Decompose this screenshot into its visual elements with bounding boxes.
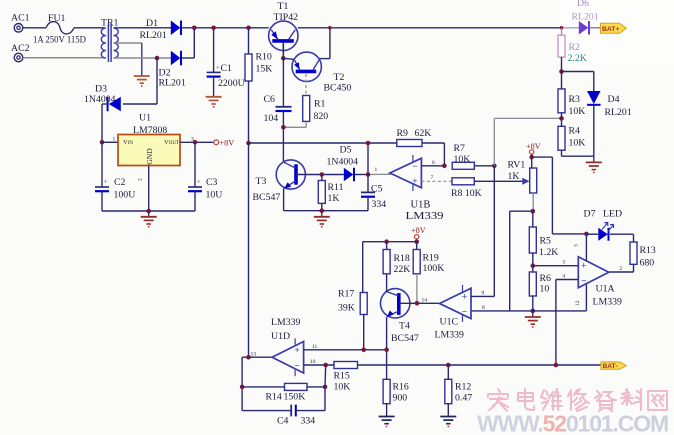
svg-text:R16: R16 bbox=[393, 382, 409, 393]
op-amp U1D LM339 bbox=[271, 317, 304, 376]
diode D1 RL201 bbox=[140, 18, 182, 41]
svg-text:1: 1 bbox=[113, 137, 116, 143]
capacitor C1 2200U bbox=[207, 63, 245, 96]
svg-text:R8 10K: R8 10K bbox=[451, 188, 482, 199]
transistor T4 BC547 bbox=[381, 289, 419, 344]
node RV1 bottom tap bbox=[531, 209, 536, 214]
node R6 bottom bbox=[531, 309, 536, 314]
wire U1D noninverting row bbox=[304, 349, 387, 351]
svg-text:1N4004: 1N4004 bbox=[84, 94, 116, 105]
svg-text:R10: R10 bbox=[256, 52, 272, 63]
wire U1B inverting input bbox=[421, 165, 444, 167]
terminal AC1 bbox=[11, 13, 30, 33]
node +8V rail tap bbox=[246, 141, 251, 146]
resistor R13 680 bbox=[610, 234, 656, 272]
svg-text:AC1: AC1 bbox=[11, 13, 30, 24]
svg-text:+: + bbox=[412, 176, 417, 186]
svg-text:T1: T1 bbox=[278, 1, 289, 12]
svg-text:22K: 22K bbox=[394, 264, 411, 275]
svg-text:LM339: LM339 bbox=[435, 330, 464, 341]
svg-text:2200U: 2200U bbox=[218, 78, 245, 89]
ground C1 bbox=[206, 96, 222, 98]
svg-text:T3: T3 bbox=[256, 176, 267, 187]
ground center tap bbox=[134, 75, 150, 77]
resistor R11 1K bbox=[318, 175, 343, 211]
node R3 R4 sense junction bbox=[559, 116, 564, 121]
svg-text:−: − bbox=[462, 307, 467, 317]
ground R4 D4 bbox=[593, 156, 595, 162]
wire rail right of T1 bbox=[298, 27, 579, 29]
svg-text:LM7808: LM7808 bbox=[133, 125, 167, 136]
svg-text:R18: R18 bbox=[394, 253, 410, 264]
ground R12 bbox=[440, 416, 456, 418]
svg-text:−: − bbox=[294, 361, 299, 371]
svg-text:R1: R1 bbox=[314, 99, 326, 110]
svg-text:3: 3 bbox=[574, 244, 580, 247]
resistor R12 0.47 bbox=[445, 365, 472, 416]
watermark chinese text bbox=[488, 389, 667, 411]
wire U1D output bbox=[242, 356, 272, 358]
wire U1C noninverting bbox=[471, 295, 494, 297]
svg-text:5: 5 bbox=[563, 260, 566, 266]
node T1 base / T2 bbox=[281, 56, 286, 61]
svg-text:C2: C2 bbox=[114, 177, 126, 188]
wire D6 to BAT+ bbox=[590, 27, 601, 29]
svg-text:1A 250V 115D: 1A 250V 115D bbox=[33, 35, 86, 46]
capacitor C4 334 bbox=[242, 387, 325, 427]
op-amp U1A LM339 bbox=[578, 257, 622, 308]
node R5 R6 junction bbox=[531, 263, 536, 268]
svg-text:C4: C4 bbox=[277, 416, 289, 427]
svg-text:2: 2 bbox=[138, 178, 144, 181]
svg-text:R15: R15 bbox=[334, 371, 350, 382]
wire T1 base to T2 bbox=[283, 58, 293, 59]
wire +8V to D7 bbox=[552, 233, 586, 235]
power port +8V at R18 bbox=[411, 226, 426, 239]
wire D2 anode junction down to D3 bbox=[156, 58, 158, 104]
svg-text:13: 13 bbox=[251, 352, 257, 358]
regulator U1 LM7808 bbox=[118, 113, 180, 166]
svg-text:R19: R19 bbox=[423, 253, 439, 264]
svg-text:R12: R12 bbox=[455, 382, 471, 393]
op-amp U1C LM339 bbox=[435, 285, 472, 341]
capacitor C2 100U bbox=[95, 142, 135, 211]
svg-text:9: 9 bbox=[482, 291, 485, 297]
svg-text:2: 2 bbox=[620, 266, 623, 272]
svg-text:D4: D4 bbox=[608, 94, 620, 105]
svg-text:1K: 1K bbox=[508, 171, 520, 182]
svg-text:U1C: U1C bbox=[440, 317, 459, 328]
svg-text:T4: T4 bbox=[399, 321, 410, 332]
svg-text:+: + bbox=[216, 65, 220, 72]
diode D2 RL201 bbox=[159, 51, 186, 89]
wire D2 cathode up to rail bbox=[182, 57, 195, 59]
svg-text:C5: C5 bbox=[371, 184, 383, 195]
wire secondary bottom to D2 bbox=[114, 57, 157, 59]
svg-text:D7: D7 bbox=[584, 209, 596, 220]
resistor R18 22K bbox=[383, 242, 410, 275]
svg-text:C1: C1 bbox=[221, 63, 233, 74]
resistor R14 150K bbox=[242, 383, 325, 402]
terminal AC2 bbox=[11, 43, 30, 62]
node C5 rail tap bbox=[366, 141, 371, 146]
svg-text:R14: R14 bbox=[266, 392, 282, 403]
svg-text:39K: 39K bbox=[338, 303, 355, 314]
svg-text:R6: R6 bbox=[540, 273, 552, 284]
svg-text:2.2K: 2.2K bbox=[568, 53, 587, 64]
svg-text:U1B: U1B bbox=[411, 200, 431, 211]
svg-text:−: − bbox=[412, 161, 417, 171]
wire T3 emitter down bbox=[283, 188, 285, 211]
svg-text:R3: R3 bbox=[569, 94, 581, 105]
svg-text:100U: 100U bbox=[114, 190, 136, 201]
transistor T3 BC547 bbox=[253, 160, 306, 203]
resistor R4 10K bbox=[558, 113, 585, 156]
svg-text:TIP42: TIP42 bbox=[274, 12, 299, 23]
node R11 bottom bbox=[320, 208, 325, 213]
svg-text:BC547: BC547 bbox=[391, 333, 419, 344]
node R12 top bbox=[446, 363, 451, 368]
node U1 input bbox=[100, 140, 105, 145]
node R7 sense junction bbox=[492, 164, 497, 169]
wire T4 emitter bbox=[386, 317, 388, 379]
svg-text:1N4004: 1N4004 bbox=[327, 157, 359, 168]
svg-text:334: 334 bbox=[301, 416, 316, 427]
wire fuse to transformer bbox=[74, 27, 105, 29]
net label BAT- bbox=[601, 362, 626, 370]
capacitor C5 334 bbox=[361, 175, 386, 211]
capacitor C3 10U bbox=[188, 142, 222, 211]
svg-text:RL201: RL201 bbox=[572, 12, 599, 23]
svg-text:10U: 10U bbox=[206, 190, 223, 201]
ground T3 block bbox=[321, 211, 323, 217]
wire T3 emitter rail bbox=[284, 210, 368, 212]
net label BAT+ bbox=[601, 23, 627, 33]
node T4 emitter sense bbox=[384, 348, 389, 353]
resistor R16 900 bbox=[383, 379, 409, 403]
wire to U1 Vin bbox=[102, 141, 118, 143]
node U1A sense tap bbox=[554, 363, 559, 368]
svg-text:U1: U1 bbox=[139, 113, 151, 124]
transistor T1 TIP42 bbox=[269, 1, 298, 51]
svg-text:11: 11 bbox=[312, 344, 318, 350]
svg-text:VIN: VIN bbox=[123, 139, 133, 146]
resistor R5 1.2K bbox=[529, 211, 558, 266]
wire T4 collector bbox=[386, 274, 388, 292]
svg-text:1K: 1K bbox=[328, 193, 340, 204]
node D7 anode bbox=[584, 232, 589, 237]
svg-text:U1A: U1A bbox=[596, 284, 615, 295]
potentiometer RV1 1K bbox=[508, 154, 537, 211]
ground R16 bbox=[386, 404, 388, 417]
svg-text:1: 1 bbox=[375, 167, 378, 173]
svg-text:D5: D5 bbox=[340, 145, 352, 156]
wire AC1 to fuse bbox=[23, 27, 46, 29]
svg-text:10K: 10K bbox=[569, 138, 586, 149]
svg-text:680: 680 bbox=[640, 258, 655, 269]
svg-text:+8V: +8V bbox=[526, 142, 541, 151]
resistor R3 10K bbox=[558, 72, 585, 118]
svg-text:10K: 10K bbox=[569, 106, 586, 117]
svg-text:104: 104 bbox=[264, 113, 279, 124]
svg-text:BAT+: BAT+ bbox=[602, 26, 619, 33]
node C6-R1 junction bbox=[281, 125, 286, 130]
svg-text:C3: C3 bbox=[206, 177, 218, 188]
node U1B top input bbox=[442, 164, 447, 169]
svg-text:D6: D6 bbox=[577, 0, 589, 9]
wire ground rail under C2 C3 bbox=[102, 210, 195, 212]
diode D5 1N4004 bbox=[327, 145, 359, 182]
node R19 bottom bbox=[415, 301, 420, 306]
node riser bbox=[328, 26, 332, 30]
wire T2 emitter riser to rail bbox=[319, 58, 330, 60]
svg-text:+8V: +8V bbox=[220, 139, 235, 148]
op-amp U1B LM339 bbox=[390, 155, 444, 222]
wire R1 bottom to C6 line bbox=[305, 121, 307, 127]
node R18 top bbox=[384, 239, 389, 244]
node D2-D1 junction bbox=[192, 26, 197, 31]
power port +8V at RV1 bbox=[526, 142, 541, 154]
wire U1 output bbox=[180, 141, 213, 143]
svg-text:6: 6 bbox=[432, 160, 435, 166]
svg-text:D3: D3 bbox=[95, 84, 107, 95]
white wash overlay top right bbox=[560, 0, 674, 64]
node R17 bottom bbox=[361, 348, 366, 353]
terminal +8V output bbox=[214, 139, 234, 148]
svg-text:R4: R4 bbox=[569, 126, 581, 137]
transistor T2 BC450 bbox=[292, 52, 351, 93]
wire BAT- rail bbox=[358, 364, 601, 366]
svg-text:LED: LED bbox=[603, 209, 622, 220]
wire R14 to U1D inverting bbox=[324, 365, 327, 387]
wire U1 GND pin bbox=[148, 166, 150, 212]
node R19 top bbox=[414, 239, 419, 244]
wire T4 base to U1C output bbox=[399, 302, 441, 304]
wire U1A inverting from BAT- bbox=[556, 279, 578, 281]
wire feedback left leg bbox=[241, 357, 243, 410]
svg-text:LM339: LM339 bbox=[271, 317, 300, 328]
node R14 left bbox=[240, 385, 245, 390]
resistor R8 10K bbox=[451, 178, 482, 199]
wire RV1 top to D7 branch bbox=[532, 156, 553, 158]
svg-text:BC547: BC547 bbox=[253, 192, 281, 203]
diode D3 1N4004 bbox=[84, 84, 121, 112]
wire R8 to RV1 wiper bbox=[474, 180, 526, 182]
svg-text:15K: 15K bbox=[256, 64, 273, 75]
svg-text:8: 8 bbox=[482, 305, 485, 311]
svg-text:U1D: U1D bbox=[271, 331, 290, 342]
svg-text:T2: T2 bbox=[334, 72, 345, 83]
svg-text:100K: 100K bbox=[423, 263, 445, 274]
wire to U1A noninverting bbox=[533, 265, 579, 267]
svg-text:VOUT: VOUT bbox=[164, 139, 179, 146]
node ground rail bbox=[146, 209, 151, 214]
svg-text:D1: D1 bbox=[146, 18, 158, 29]
wire T2 base to R1 (dashed) bbox=[305, 74, 307, 96]
svg-text:BAT-: BAT- bbox=[603, 363, 618, 370]
svg-text:14: 14 bbox=[422, 298, 428, 304]
svg-text:R17: R17 bbox=[338, 289, 354, 300]
wire long feedback vertical bbox=[248, 143, 250, 357]
wire D3 cathode to U1 input bbox=[102, 103, 108, 105]
wire R4 bottom to ground bbox=[562, 155, 594, 157]
svg-text:RL201: RL201 bbox=[140, 30, 167, 41]
svg-text:150K: 150K bbox=[284, 392, 306, 403]
node R11 top bbox=[320, 172, 325, 177]
ground R6 bbox=[532, 311, 534, 317]
svg-text:R2: R2 bbox=[569, 42, 581, 53]
node R10 top bbox=[246, 26, 251, 31]
svg-text:TR1: TR1 bbox=[101, 18, 119, 29]
svg-text:R13: R13 bbox=[640, 245, 656, 256]
node C3 branch bbox=[193, 140, 198, 145]
resistor R19 100K bbox=[413, 242, 444, 304]
svg-text:+: + bbox=[581, 260, 586, 270]
LED D7 bbox=[584, 209, 623, 241]
svg-text:RL201: RL201 bbox=[605, 107, 632, 118]
svg-text:10: 10 bbox=[540, 284, 550, 295]
svg-text:+: + bbox=[462, 291, 467, 301]
resistor R17 39K bbox=[338, 242, 367, 350]
svg-text:BC450: BC450 bbox=[324, 83, 352, 94]
svg-text:7: 7 bbox=[431, 175, 434, 181]
resistor R9 62K bbox=[397, 128, 432, 147]
wire +8V rail to R17 R18 bbox=[363, 241, 417, 243]
resistor R15 10K bbox=[334, 362, 358, 393]
svg-text:62K: 62K bbox=[415, 128, 432, 139]
wire T1 base down bbox=[282, 43, 284, 59]
wire R7 right bbox=[474, 165, 494, 167]
wire U1B noninverting input (dashed) bbox=[421, 180, 452, 182]
svg-text:10: 10 bbox=[310, 359, 316, 365]
wire R9 to U1B top input bbox=[422, 142, 444, 144]
node U1D output feedback bbox=[246, 355, 251, 360]
svg-text:4: 4 bbox=[563, 274, 566, 280]
svg-text:900: 900 bbox=[393, 393, 408, 404]
wire U1A gnd stub pin12 bbox=[585, 284, 587, 311]
wire secondary top to D1 bbox=[114, 27, 171, 29]
resistor R6 10 bbox=[529, 266, 551, 311]
svg-text:LM339: LM339 bbox=[593, 297, 622, 308]
svg-text:R5: R5 bbox=[540, 236, 552, 247]
svg-text:FU1: FU1 bbox=[48, 13, 66, 24]
wire D5 cathode to U1B output bbox=[355, 174, 368, 176]
svg-text:C6: C6 bbox=[264, 94, 276, 105]
wire rail to C1 bbox=[213, 28, 215, 73]
svg-text:+8V: +8V bbox=[411, 226, 426, 235]
wire battery sense from R3R4 bbox=[493, 118, 495, 165]
svg-text:820: 820 bbox=[314, 111, 329, 122]
svg-text:GND: GND bbox=[145, 148, 154, 165]
node R14 right bbox=[323, 385, 328, 390]
svg-text:10K: 10K bbox=[454, 154, 471, 165]
node R2 bottom junction bbox=[559, 69, 564, 74]
wire D1 cathode to rail bbox=[182, 27, 269, 29]
svg-text:−: − bbox=[581, 275, 586, 285]
svg-text:+: + bbox=[197, 179, 201, 186]
wire AC2 to transformer bbox=[23, 57, 104, 59]
svg-text:R7: R7 bbox=[454, 143, 466, 154]
transformer TR1 bbox=[101, 18, 119, 63]
fuse FU1 bbox=[33, 13, 86, 46]
wire sense down to U1C bbox=[493, 166, 495, 297]
wire U1D inverting row bbox=[304, 364, 334, 366]
resistor R1 820 bbox=[303, 96, 329, 123]
wire T3 base row bbox=[296, 174, 344, 176]
node RV1 top bbox=[529, 155, 534, 160]
svg-text:1.2K: 1.2K bbox=[539, 247, 558, 258]
svg-text:RV1: RV1 bbox=[508, 160, 526, 171]
ground main filter bbox=[148, 211, 150, 217]
wire U1A pin3 stub bbox=[585, 234, 587, 261]
node C1 junction bbox=[211, 26, 216, 31]
wire gnd row U1C to U1A bbox=[471, 310, 586, 312]
svg-text:+: + bbox=[294, 345, 299, 355]
svg-text:+: + bbox=[104, 179, 108, 186]
resistor R10 15K bbox=[245, 28, 272, 143]
node R15 left bbox=[323, 363, 328, 368]
svg-text:R11: R11 bbox=[328, 182, 344, 193]
node R2 top bbox=[560, 26, 564, 30]
svg-text:12: 12 bbox=[575, 300, 581, 306]
wire RV1 tap to U1C inverting bbox=[510, 210, 533, 212]
svg-text:334: 334 bbox=[372, 199, 387, 210]
wire C5 vertical to +8V rail bbox=[367, 143, 369, 175]
wire secondary center tap bbox=[114, 42, 142, 44]
diode D6 RL201 bbox=[572, 0, 599, 35]
svg-text:RL201: RL201 bbox=[159, 78, 186, 89]
resistor R2 2.2K bbox=[558, 28, 587, 72]
node D2 anode junction bbox=[155, 56, 160, 61]
svg-text:WWW.520101.COM: WWW.520101.COM bbox=[477, 411, 668, 435]
node C5 top bbox=[366, 172, 371, 177]
svg-text:0.47: 0.47 bbox=[455, 393, 472, 404]
svg-text:AC2: AC2 bbox=[11, 43, 30, 54]
svg-text:LM339: LM339 bbox=[406, 211, 444, 222]
capacitor C6 104 bbox=[264, 43, 292, 162]
wire +8V rail bbox=[249, 142, 397, 144]
resistor R7 10K bbox=[452, 143, 474, 169]
svg-text:10K: 10K bbox=[334, 382, 351, 393]
watermark url bbox=[477, 411, 668, 435]
diode D4 RL201 bbox=[562, 72, 632, 157]
svg-text:R9: R9 bbox=[397, 128, 409, 139]
